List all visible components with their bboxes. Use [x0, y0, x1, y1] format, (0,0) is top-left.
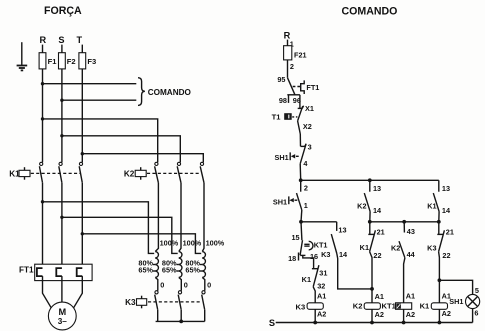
svg-text:14: 14 — [339, 250, 348, 259]
wire K1 14 to 21 — [438, 211, 440, 234]
svg-text:1: 1 — [304, 201, 308, 210]
node star junction — [179, 320, 183, 324]
node R tap K2 — [41, 117, 44, 120]
svg-text:95: 95 — [277, 75, 285, 84]
node branch4 junction — [437, 220, 441, 224]
svg-text:14: 14 — [373, 206, 382, 215]
lamp SH1 — [449, 294, 479, 308]
wire K3 14 to K2 coil branch — [337, 254, 372, 289]
overload relay FT1 — [19, 264, 92, 280]
coil K1 — [420, 301, 448, 310]
svg-text:A2: A2 — [317, 310, 326, 319]
svg-text:K3: K3 — [427, 243, 436, 252]
node bus K1 — [438, 321, 442, 325]
svg-text:A1: A1 — [406, 292, 415, 301]
node S tap trafo — [60, 216, 63, 219]
svg-text:21: 21 — [377, 228, 385, 237]
wire coil K3 to bus — [314, 309, 316, 322]
wire phase T top — [81, 45, 83, 53]
node lamp junction — [438, 278, 442, 282]
svg-text:K3: K3 — [321, 250, 330, 259]
svg-text:K1: K1 — [420, 301, 430, 310]
svg-text:K1: K1 — [427, 201, 436, 210]
coil KT1 — [396, 303, 412, 310]
wire coil K2 to bus — [371, 309, 373, 322]
svg-text:K3: K3 — [125, 298, 136, 307]
wire S to K2 pole 2 — [62, 136, 180, 163]
wire K3 22 to coil K1 — [438, 252, 441, 303]
svg-text:A1: A1 — [317, 292, 326, 301]
svg-text:A2: A2 — [442, 309, 451, 318]
wire K2 44 to coil KT1 — [404, 258, 405, 303]
wire phase R to K1 — [42, 69, 44, 162]
wire lamp branch — [439, 280, 472, 294]
svg-text:FT1: FT1 — [306, 83, 319, 92]
svg-text:K1: K1 — [302, 275, 311, 284]
svg-text:13: 13 — [338, 225, 346, 234]
svg-text:3: 3 — [308, 143, 312, 152]
wire FT1 to motor 1 — [43, 276, 52, 308]
svg-text:22: 22 — [442, 251, 450, 260]
svg-text:K3: K3 — [295, 302, 305, 311]
wire FT1 to motor 3 — [73, 276, 82, 308]
svg-text:K2: K2 — [124, 169, 135, 178]
contact K1 31-32 — [302, 265, 328, 290]
svg-text:K1: K1 — [360, 243, 369, 252]
svg-text:0: 0 — [207, 281, 211, 290]
autotransformer coil 2 — [162, 238, 202, 290]
svg-text:22: 22 — [373, 251, 381, 260]
contactor K1 pole 2 — [59, 162, 62, 183]
relay T1 — [272, 112, 298, 121]
svg-text:T: T — [76, 35, 82, 45]
svg-text:0: 0 — [184, 281, 188, 290]
contact K2 13-14 — [357, 180, 382, 215]
node branch2 junction — [368, 220, 372, 224]
svg-text:15: 15 — [291, 233, 299, 242]
svg-text:32: 32 — [317, 281, 325, 290]
fuse F3 — [79, 53, 96, 69]
motor M 3~ — [48, 302, 76, 330]
wire 16 to K1 31 — [303, 255, 314, 268]
contact K2 43-44 — [391, 222, 416, 259]
wire branch1 bus — [301, 221, 337, 223]
svg-text:2: 2 — [290, 62, 294, 71]
pushbutton SH1 start — [273, 180, 308, 210]
autotransformer coil 3 — [185, 238, 224, 290]
svg-text:F1: F1 — [48, 57, 58, 66]
contactor K2 actuator — [124, 167, 201, 180]
svg-text:100%: 100% — [183, 238, 202, 247]
svg-text:K2: K2 — [391, 243, 400, 252]
svg-text:A2: A2 — [406, 310, 415, 319]
svg-text:21: 21 — [446, 228, 454, 237]
svg-text:5: 5 — [475, 286, 479, 295]
svg-text:18: 18 — [288, 254, 296, 263]
svg-text:K2: K2 — [357, 201, 366, 210]
svg-text:31: 31 — [319, 268, 327, 277]
svg-text:98: 98 — [279, 96, 287, 105]
wire 4 to top bus — [299, 164, 302, 181]
svg-text:100%: 100% — [160, 238, 179, 247]
wire X2 to node 3 — [299, 134, 301, 146]
contact K1 13-14 — [427, 180, 451, 215]
brace COMANDO — [138, 78, 192, 106]
svg-text:F2: F2 — [67, 57, 76, 66]
svg-text:A2: A2 — [375, 310, 384, 319]
wire phase R top — [42, 45, 44, 53]
svg-text:3–: 3– — [58, 317, 68, 326]
coil K3 — [295, 302, 323, 311]
svg-text:F21: F21 — [294, 50, 307, 59]
coil K2 — [353, 301, 397, 310]
wire 1 to branch bus — [300, 210, 303, 222]
node bus K2 branch — [368, 178, 372, 182]
wire K2 pole 3 down — [202, 183, 204, 252]
wire K2 pole 2 down — [179, 183, 181, 252]
svg-text:100%: 100% — [206, 238, 225, 247]
contact KT1 timed 15-16-18 — [288, 222, 327, 263]
wire R below K1 — [42, 183, 44, 269]
svg-text:43: 43 — [407, 227, 415, 236]
svg-text:6: 6 — [474, 308, 478, 317]
svg-text:FT1: FT1 — [19, 266, 34, 275]
svg-text:K2: K2 — [353, 301, 363, 310]
node R tap trafo — [41, 200, 44, 203]
wire R to trafo 1 top — [43, 202, 155, 254]
svg-text:S: S — [269, 318, 275, 328]
contact X1-X2 thermistor — [298, 104, 314, 134]
autotransformer coil 1 — [138, 238, 178, 290]
contactor K2 pole 2 — [177, 162, 181, 183]
svg-text:X2: X2 — [303, 122, 312, 131]
pin 3 — [301, 143, 312, 152]
contactor K2 pole 1 — [155, 162, 159, 183]
wire 96 to X1 — [299, 95, 301, 109]
contact K3 13-14 seal — [321, 222, 348, 259]
node T tap K2 — [81, 152, 84, 155]
svg-text:65%: 65% — [138, 265, 153, 274]
svg-text:SH1: SH1 — [274, 153, 288, 162]
contact K1 21-22 — [360, 222, 382, 260]
svg-text:S: S — [58, 35, 64, 45]
wire K1 32 to coil K3 — [313, 287, 315, 303]
svg-text:2: 2 — [304, 184, 308, 193]
node S tap K2 — [60, 134, 63, 137]
wire phase S top — [61, 45, 63, 53]
svg-text:KT1: KT1 — [314, 240, 328, 249]
wire top bus — [301, 179, 439, 181]
svg-text:M: M — [58, 307, 66, 317]
node K2 coil junction — [370, 287, 374, 291]
ground — [17, 42, 28, 70]
fuse F21 — [284, 46, 307, 60]
node branch3 junction — [402, 220, 406, 224]
svg-text:65%: 65% — [185, 265, 200, 274]
wire comando feed 1 — [43, 83, 137, 85]
fuse F1 — [39, 53, 57, 69]
svg-text:F3: F3 — [87, 57, 96, 66]
wire R to F21 — [287, 40, 289, 46]
wire FT1 to motor 2 — [61, 276, 63, 302]
wire phase S to K1 — [61, 69, 63, 162]
contactor K3 pole 1 — [155, 291, 158, 322]
svg-text:SH1: SH1 — [449, 297, 463, 306]
wire S to trafo 2 top — [62, 217, 178, 253]
wire F21 to FT1 contact — [287, 60, 289, 78]
wire T below K1 — [81, 183, 83, 269]
svg-text:44: 44 — [407, 250, 416, 259]
contactor K1 actuator — [9, 167, 80, 180]
svg-text:13: 13 — [373, 184, 381, 193]
contactor K3 pole 2 — [178, 291, 181, 322]
wire S below K1 — [61, 183, 63, 269]
wire R to K2 pole 1 — [43, 119, 158, 162]
wire K2 pole 1 down — [155, 183, 158, 252]
svg-text:65%: 65% — [162, 265, 177, 274]
node bus K2 — [370, 321, 374, 325]
contact FT1 95-96-98 — [279, 78, 320, 105]
wire coil K1 to bus — [438, 309, 440, 322]
wire K2 14 to junction — [369, 211, 371, 221]
svg-text:R: R — [39, 35, 46, 45]
contactor K3 pole 3 — [202, 291, 205, 322]
wire K1 22 to coil K2 — [370, 252, 372, 303]
node bus KT1 — [402, 321, 406, 325]
svg-text:14: 14 — [442, 206, 451, 215]
node T tap trafo — [81, 232, 84, 235]
svg-text:COMANDO: COMANDO — [148, 88, 192, 97]
node S tap comando — [60, 99, 63, 102]
node bus left — [299, 178, 303, 182]
node R tap comando — [41, 82, 44, 85]
svg-text:0: 0 — [160, 281, 164, 290]
wire coil KT1 to bus — [403, 309, 405, 322]
wire T to K2 pole 3 — [82, 154, 203, 163]
node branch1 junction — [299, 220, 303, 224]
wire comando feed 2 — [62, 99, 136, 101]
contactor K1 pole 3 — [79, 162, 82, 183]
svg-text:FORÇA: FORÇA — [44, 5, 82, 17]
contactor K1 pole 1 — [39, 162, 42, 183]
wire branch2 bus — [370, 221, 439, 223]
svg-text:13: 13 — [442, 184, 450, 193]
svg-text:T1: T1 — [272, 112, 282, 121]
wire lamp to bus — [472, 309, 474, 323]
svg-text:SH1: SH1 — [273, 197, 287, 206]
pushbutton SH1 stop — [274, 144, 305, 163]
svg-text:A1: A1 — [375, 292, 384, 301]
wire T to trafo 3 top — [82, 234, 201, 254]
wire star bus — [156, 320, 205, 322]
svg-text:COMANDO: COMANDO — [342, 5, 398, 17]
node bus K3 — [313, 321, 317, 325]
svg-text:X1: X1 — [305, 104, 314, 113]
fuse F2 — [59, 53, 76, 69]
contact K3 21-22 — [427, 230, 450, 260]
contactor K2 pole 3 — [200, 162, 204, 183]
wire bottom bus S — [276, 322, 473, 324]
wire phase T to K1 — [81, 69, 83, 162]
contactor K3 actuator — [125, 296, 201, 309]
